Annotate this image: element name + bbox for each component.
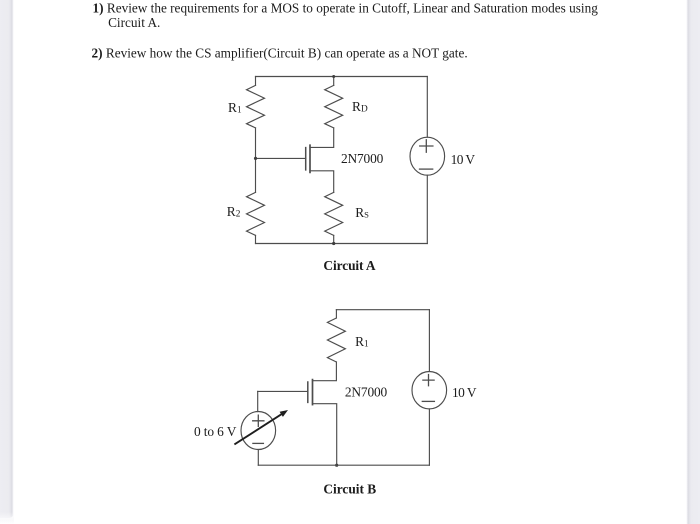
junction: RS / bottom rail (Circuit A) [332,242,335,245]
wire: Circuit A stub from RS to bottom rail [333,235,335,243]
resistor R2 (Circuit A) [247,192,265,235]
wire: Circuit A left branch between R1 and R2 (gate node) [255,128,257,192]
junction: top rail / RD tee (Circuit A) [332,75,335,78]
transistor Q1 2N7000 gate bar (Circuit A) [305,148,307,170]
V2 plus sign (Circuit B) [423,375,434,386]
svg-text:R2: R2 [227,204,241,220]
svg-text:RS: RS [355,205,369,220]
svg-text:0 to 6 V: 0 to 6 V [194,424,237,439]
wire: Circuit A right branch from top rail to 10V source [426,77,428,138]
svg-text:RD: RD [352,99,368,115]
variability arrow head (Circuit B) [280,410,288,417]
wire: Circuit B left branch from gate wire down to input source [257,391,259,411]
wire: Circuit A top rail (VDD net) [256,76,428,78]
Vin plus sign (Circuit B) [253,415,264,426]
V1 plus sign (Circuit A) [420,140,433,152]
Vin minus sign (Circuit B) [253,442,264,444]
wire: Circuit B bottom rail [258,464,429,466]
wire: Circuit B top rail [336,309,429,311]
svg-text:Circuit A.: Circuit A. [108,15,160,30]
wire: Circuit A gate wire from divider to Q1 gate [256,157,306,159]
wire: Circuit B right branch from 10V source to bottom rail [428,409,430,465]
resistor RS (Circuit A) [325,192,343,235]
wire: Circuit B source wire from Q2 to bottom rail [313,404,337,466]
wire: Circuit B gate wire [258,390,308,392]
wire: Circuit A left branch stub below R2 [255,235,257,243]
wire: Circuit A left branch stub above R1 [255,77,257,86]
svg-text:1) Review the requirements for: 1) Review the requirements for a MOS to … [93,1,599,16]
svg-text:2N7000: 2N7000 [341,151,384,166]
voltage source Vin 0-6V body (Circuit B) [241,412,276,450]
wire: Circuit A right branch from 10V source to bottom rail [426,175,428,243]
wire: Circuit B drain wire from R1 to Q2 drain [313,362,337,381]
resistor R1 (Circuit A) [247,85,265,128]
svg-text:2) Review how the CS amplifier: 2) Review how the CS amplifier(Circuit B… [92,45,468,60]
wire: Circuit A drain wire from RD to Q1 drain [310,128,334,147]
variability arrow across Vin (Circuit B) [235,414,281,444]
junction: gate wire / divider node (Circuit A) [254,157,257,160]
wire: Circuit B stub above R1 [335,310,337,318]
wire: Circuit A source wire from Q1 to RS [310,171,334,193]
transistor Q2 2N7000 gate bar (Circuit B) [307,382,309,402]
wire: Circuit A bottom rail (ground net) [256,243,428,245]
voltage source V2 10V body (Circuit B) [412,372,447,409]
transistor Q1 2N7000 channel bar (Circuit A) [309,145,311,172]
svg-text:R1: R1 [355,334,369,350]
svg-text:2N7000: 2N7000 [345,384,388,399]
transistor Q2 2N7000 channel bar (Circuit B) [312,380,314,405]
svg-text:10 V: 10 V [451,152,476,167]
resistor RD (Circuit A) [325,85,343,128]
wire: Circuit A stub from top rail to RD [333,77,335,86]
voltage source V1 10V body (Circuit A) [410,137,445,175]
resistor R1 (Circuit B) [327,318,345,362]
svg-text:10 V: 10 V [452,385,477,400]
junction: Q2 source / bottom rail (Circuit B) [335,464,338,467]
wire: Circuit B from input source to bottom rail [257,450,259,466]
wire: Circuit B right branch from top rail to 10V source [428,310,430,372]
svg-text:Circuit B: Circuit B [323,482,376,497]
V1 minus sign (Circuit A) [420,168,433,170]
svg-text:R1: R1 [228,100,242,116]
V2 minus sign (Circuit B) [422,400,434,402]
svg-text:Circuit A: Circuit A [323,258,376,273]
